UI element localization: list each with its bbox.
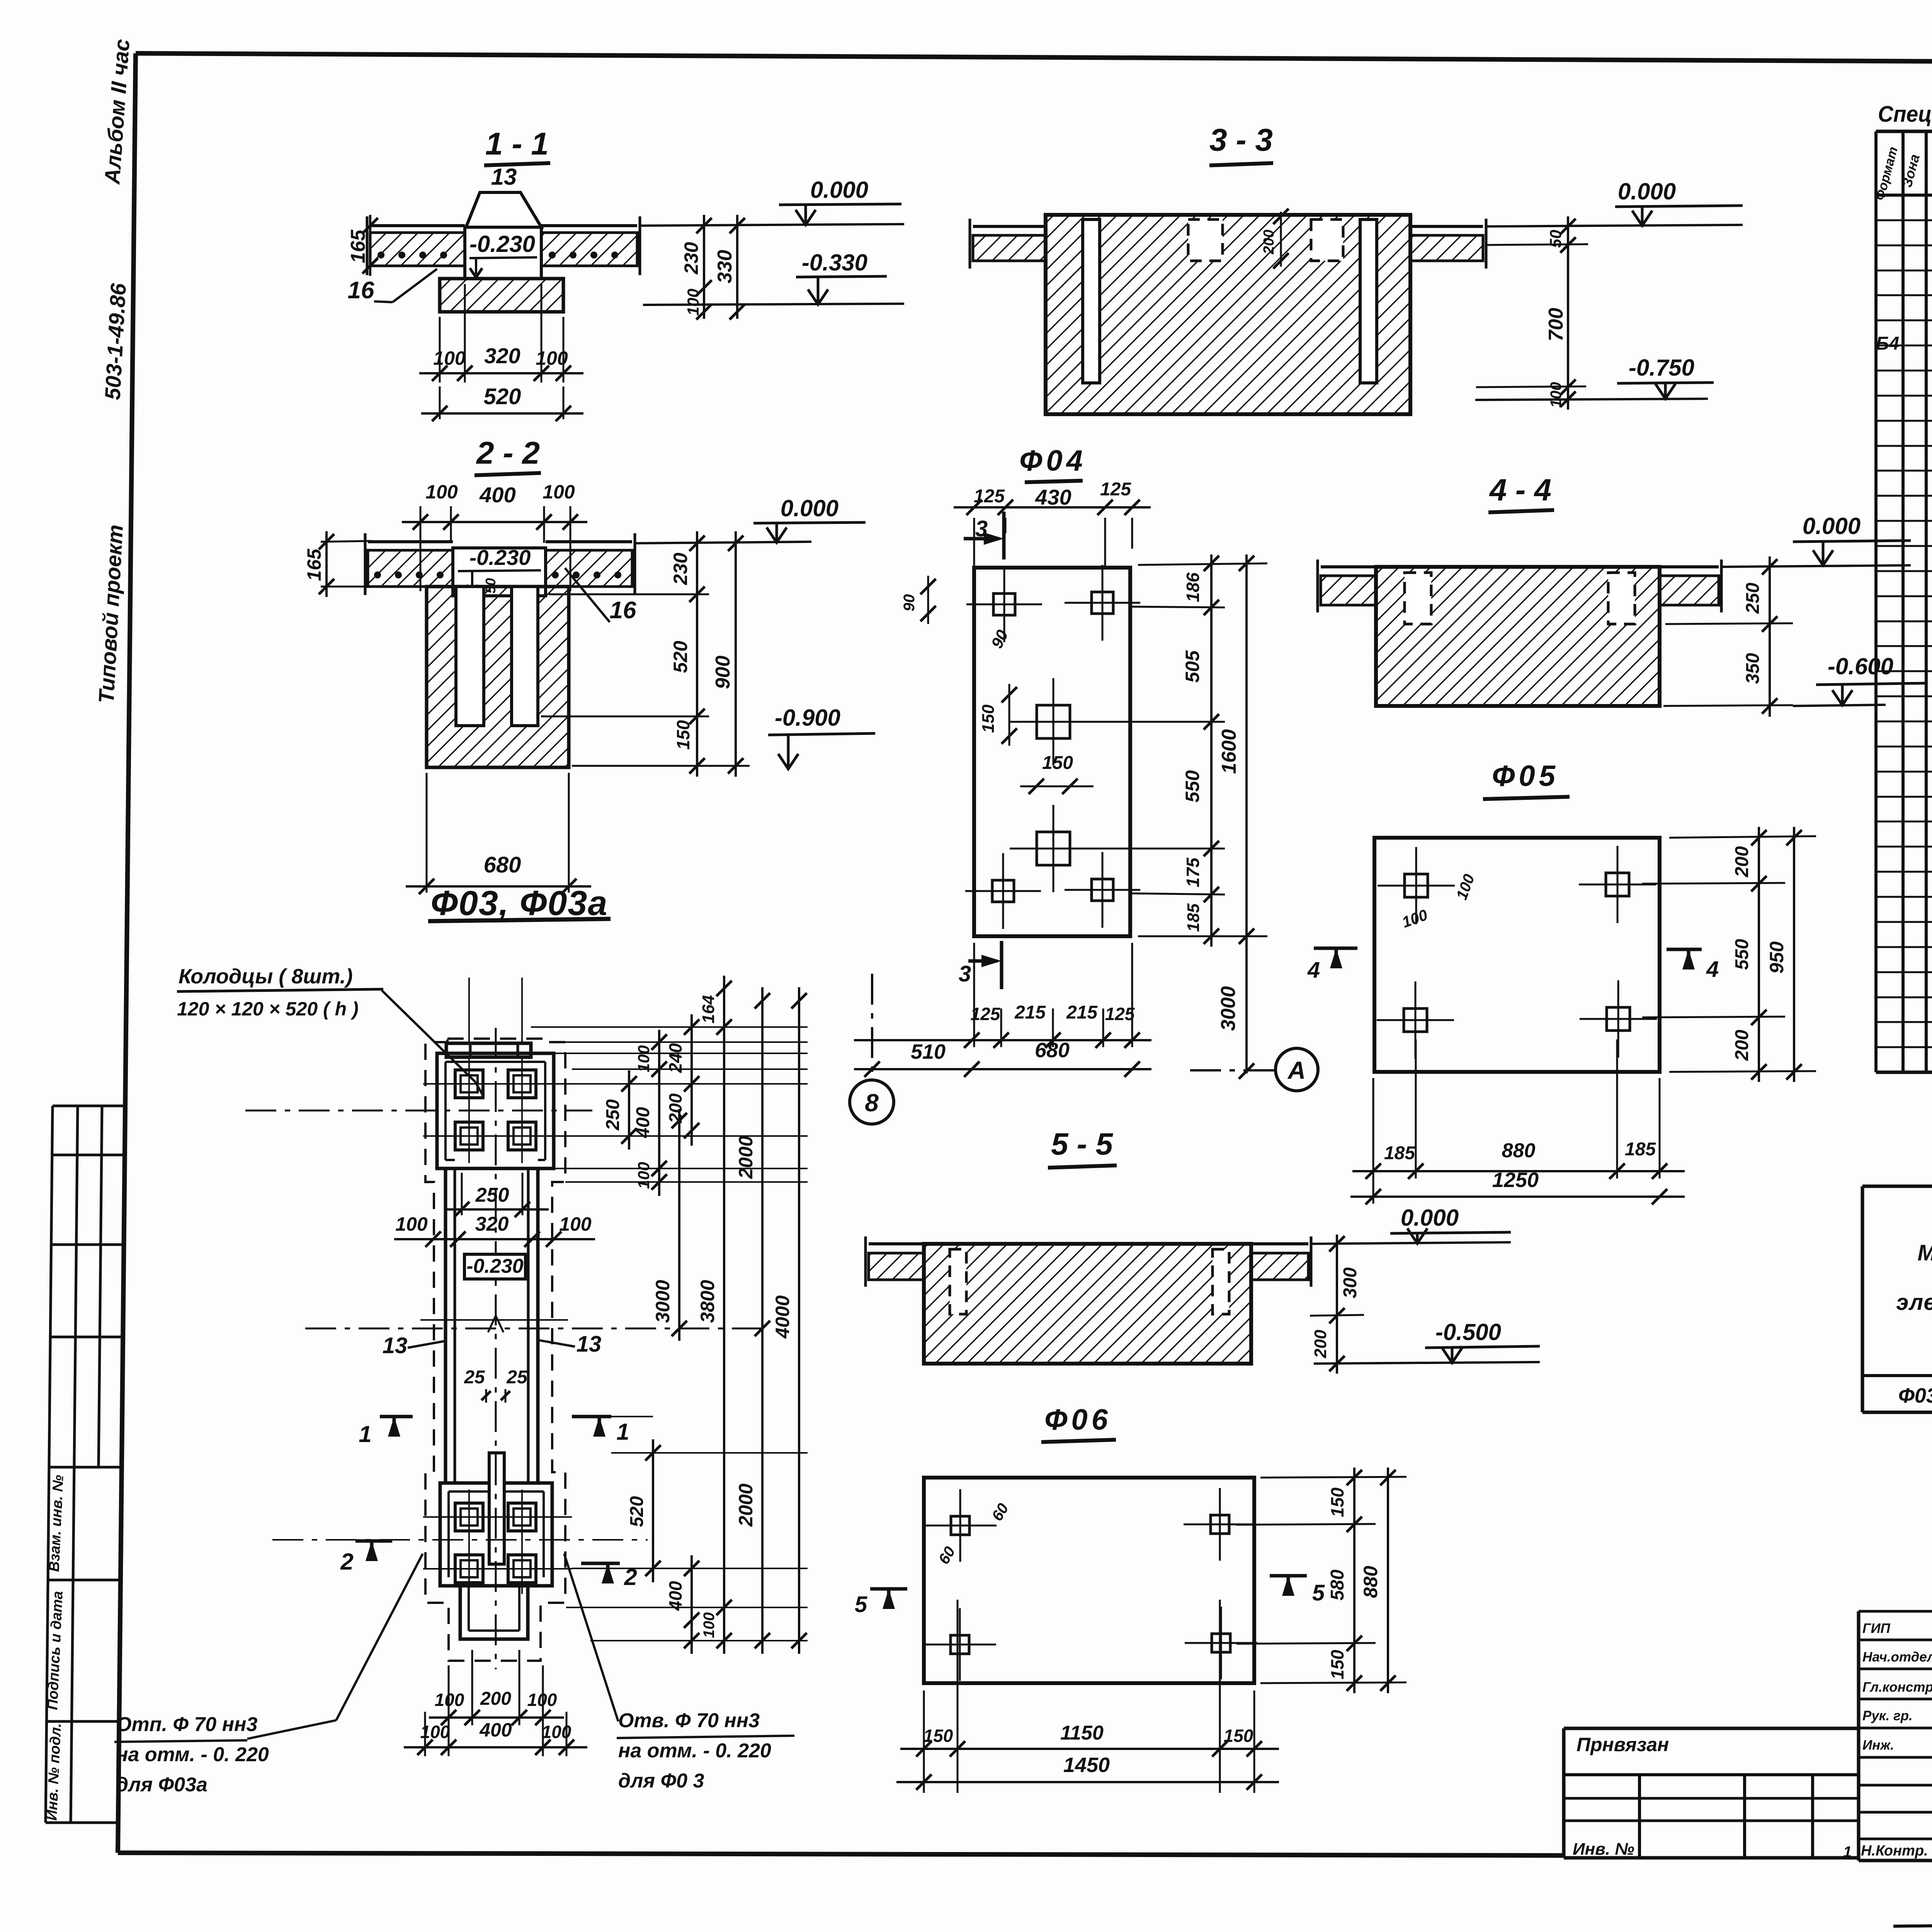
spec table bbox=[1872, 102, 1932, 1072]
svg-text:185: 185 bbox=[1384, 1143, 1415, 1163]
svg-text:400: 400 bbox=[665, 1581, 685, 1611]
section 4-4 title bbox=[1488, 473, 1554, 512]
plan F03 extension lines bbox=[531, 1027, 808, 1641]
svg-text:4 - 4: 4 - 4 bbox=[1489, 473, 1551, 507]
svg-text:150: 150 bbox=[979, 704, 998, 733]
svg-text:400: 400 bbox=[633, 1107, 653, 1138]
plan F03 top dims bbox=[394, 1173, 595, 1247]
svg-text:1600: 1600 bbox=[1218, 729, 1240, 774]
svg-text:8: 8 bbox=[865, 1089, 879, 1117]
svg-text:25: 25 bbox=[506, 1367, 528, 1388]
section 3-3 elevation -0.750 bbox=[1475, 355, 1714, 400]
svg-text:520: 520 bbox=[484, 384, 521, 409]
plan F04 top dims bbox=[954, 479, 1151, 568]
svg-text:для Ф03а: для Ф03а bbox=[116, 1774, 207, 1796]
svg-text:100: 100 bbox=[559, 1213, 592, 1235]
plan F05 section marks 4 bbox=[1307, 948, 1719, 983]
title block bbox=[1843, 1605, 1932, 1866]
plan F06 right dims bbox=[1236, 1468, 1406, 1693]
left stamp column bbox=[44, 1106, 125, 1823]
plan F05 plate bbox=[1374, 838, 1660, 1072]
svg-text:-0.230: -0.230 bbox=[469, 545, 531, 570]
section 2-2 footing bbox=[427, 587, 569, 767]
svg-text:550: 550 bbox=[1182, 770, 1203, 803]
svg-text:100: 100 bbox=[701, 1612, 718, 1638]
section 5-5 block bbox=[924, 1244, 1251, 1364]
svg-text:А: А bbox=[1287, 1056, 1306, 1084]
svg-text:100: 100 bbox=[395, 1213, 428, 1235]
svg-text:Ф03, Ф03а: Ф03, Ф03а bbox=[431, 884, 608, 923]
plan F03 mark minus0230 bbox=[464, 1254, 526, 1279]
svg-text:164: 164 bbox=[699, 995, 718, 1023]
svg-text:125: 125 bbox=[1100, 479, 1131, 500]
svg-text:150: 150 bbox=[923, 1726, 953, 1746]
svg-text:Ф03, Ф03а: Ф03, Ф03а bbox=[1898, 1384, 1932, 1407]
svg-text:Ф06: Ф06 bbox=[1044, 1403, 1112, 1436]
svg-text:5 - 5: 5 - 5 bbox=[1051, 1127, 1114, 1161]
plan F06 anchors bbox=[923, 1488, 1257, 1681]
section 2-2 title bbox=[474, 435, 541, 475]
plan F03 chain 100-400-100 bbox=[633, 1030, 667, 1196]
svg-text:430: 430 bbox=[1035, 485, 1071, 509]
svg-text:Марка: Марка bbox=[1917, 1240, 1932, 1265]
svg-text:13: 13 bbox=[577, 1332, 602, 1357]
plan F04 section mark 3 bottom bbox=[959, 941, 1002, 989]
plan F03 section marks 1 bbox=[359, 1417, 653, 1447]
section 5-5 elevation 0.000 bbox=[1311, 1205, 1511, 1244]
svg-text:0.000: 0.000 bbox=[1401, 1205, 1459, 1231]
svg-text:100: 100 bbox=[542, 1722, 571, 1742]
svg-text:-0.600: -0.600 bbox=[1828, 653, 1893, 679]
section 5-5 right dims bbox=[1310, 1235, 1364, 1374]
plan F03 chain 240-200 bbox=[665, 1014, 699, 1146]
svg-text:Инв. №: Инв. № bbox=[1573, 1840, 1634, 1859]
plan F03 top head bbox=[437, 1043, 554, 1168]
section 1-1 footing bbox=[440, 279, 563, 312]
section 3-3 right dims bbox=[1476, 216, 1588, 410]
svg-text:400: 400 bbox=[479, 483, 515, 507]
svg-text:4: 4 bbox=[1307, 957, 1320, 983]
plan F04 small dims bbox=[901, 576, 1094, 794]
svg-text:900: 900 bbox=[712, 656, 734, 689]
svg-text:1150: 1150 bbox=[1060, 1722, 1104, 1744]
svg-text:100: 100 bbox=[1548, 382, 1565, 408]
svg-text:-0.500: -0.500 bbox=[1435, 1319, 1501, 1345]
svg-text:13: 13 bbox=[491, 164, 517, 190]
svg-text:100: 100 bbox=[684, 289, 702, 316]
plan F06 title bbox=[1041, 1403, 1116, 1442]
plan F06 bottom dims bbox=[896, 1600, 1279, 1793]
section 2-2 right dims bbox=[541, 531, 750, 777]
svg-text:Ф05: Ф05 bbox=[1492, 760, 1559, 793]
plan F03 chain 250 bbox=[603, 1070, 637, 1150]
svg-text:0.000: 0.000 bbox=[1803, 513, 1861, 539]
svg-text:150: 150 bbox=[1042, 753, 1073, 773]
svg-text:-0.230: -0.230 bbox=[466, 1255, 524, 1277]
svg-text:320: 320 bbox=[475, 1213, 509, 1235]
svg-text:100: 100 bbox=[435, 1690, 464, 1710]
svg-text:520: 520 bbox=[670, 641, 691, 673]
svg-text:150: 150 bbox=[673, 720, 693, 750]
plan F04 right dims bbox=[1086, 554, 1267, 1079]
plan F03 wells bbox=[455, 1070, 536, 1583]
svg-text:на отм. - 0. 220: на отм. - 0. 220 bbox=[116, 1743, 269, 1766]
svg-text:200: 200 bbox=[1732, 846, 1752, 878]
svg-text:Прнвязан: Прнвязан bbox=[1577, 1734, 1669, 1755]
svg-text:200: 200 bbox=[1261, 230, 1277, 254]
svg-text:0.000: 0.000 bbox=[1618, 179, 1676, 204]
svg-text:250: 250 bbox=[475, 1184, 509, 1206]
section 2-2 top dims bbox=[402, 481, 587, 591]
plan F03 callout left bbox=[114, 1554, 423, 1796]
svg-text:100: 100 bbox=[527, 1690, 557, 1710]
section 4-4 floor slab bbox=[1318, 560, 1721, 612]
svg-text:0.000: 0.000 bbox=[781, 495, 838, 521]
svg-text:1: 1 bbox=[359, 1421, 371, 1447]
section 1-1 pedestal bbox=[465, 192, 541, 279]
bottom right corner mark bbox=[1893, 1895, 1932, 1926]
section 2-2 elevation -0.900 bbox=[768, 705, 875, 769]
svg-text:100: 100 bbox=[420, 1722, 450, 1742]
svg-text:Гл.констр.: Гл.констр. bbox=[1862, 1680, 1932, 1695]
svg-text:400: 400 bbox=[479, 1719, 512, 1741]
section 4-4 elevation 0.000 bbox=[1721, 513, 1911, 567]
svg-text:4: 4 bbox=[1706, 957, 1719, 982]
plan F05 title bbox=[1483, 760, 1570, 799]
svg-text:1: 1 bbox=[616, 1419, 629, 1445]
plan F03 leaders 13 bbox=[383, 1332, 602, 1358]
svg-text:3800: 3800 bbox=[697, 1280, 718, 1323]
svg-text:185: 185 bbox=[1184, 903, 1203, 932]
svg-text:1250: 1250 bbox=[1492, 1168, 1539, 1192]
svg-text:5: 5 bbox=[1312, 1580, 1325, 1605]
svg-text:Отп. Ф 70 нн3: Отп. Ф 70 нн3 bbox=[116, 1713, 257, 1736]
plan F03 dims 25 25 bbox=[464, 1367, 528, 1403]
svg-text:50: 50 bbox=[1546, 230, 1565, 248]
svg-text:5: 5 bbox=[855, 1592, 867, 1617]
plan F03 chain 4000 bbox=[772, 987, 807, 1654]
svg-text:200: 200 bbox=[1311, 1330, 1330, 1359]
plan F04 bottom dims bbox=[854, 943, 1151, 1077]
plan F05 right dims bbox=[1642, 827, 1816, 1082]
svg-text:ГИП: ГИП bbox=[1862, 1621, 1891, 1636]
plan F06 section marks 5 bbox=[855, 1576, 1325, 1617]
section 3-3 elevation 0.000 bbox=[1486, 179, 1743, 226]
svg-text:100: 100 bbox=[433, 347, 466, 369]
svg-text:510: 510 bbox=[911, 1040, 946, 1063]
section 5-5 title bbox=[1048, 1127, 1117, 1168]
svg-text:4000: 4000 bbox=[772, 1295, 793, 1338]
svg-text:25: 25 bbox=[464, 1367, 485, 1388]
axis 8 bbox=[850, 974, 894, 1124]
svg-text:2000: 2000 bbox=[735, 1483, 757, 1527]
section 1-1 floor slab bbox=[367, 216, 640, 275]
svg-text:125: 125 bbox=[971, 1004, 1001, 1024]
plan F03 chain 400 bbox=[665, 1555, 699, 1654]
section 2-2 bottom dim 680 bbox=[406, 773, 591, 894]
plan F03 chain 2000-2000 bbox=[735, 987, 770, 1654]
plan F04 anchors bbox=[965, 565, 1140, 929]
svg-text:950: 950 bbox=[1766, 941, 1787, 974]
svg-text:300: 300 bbox=[1340, 1267, 1361, 1298]
svg-text:Спецнфикация на фундаменты п: Спецнфикация на фундаменты под оборудооа… bbox=[1878, 102, 1932, 127]
svg-text:13: 13 bbox=[383, 1333, 408, 1358]
margin text typovoy proekt bbox=[94, 524, 131, 704]
svg-text:Нач.отдел: Нач.отдел bbox=[1862, 1650, 1932, 1665]
section 1-1 bottom dims bbox=[419, 284, 583, 421]
plan F03 chain 3000 bbox=[652, 1109, 687, 1341]
svg-text:16: 16 bbox=[610, 597, 636, 624]
svg-text:100: 100 bbox=[425, 481, 458, 503]
plan F05 small dims bbox=[1400, 872, 1478, 931]
svg-text:100: 100 bbox=[634, 1045, 653, 1072]
svg-text:550: 550 bbox=[1732, 939, 1752, 970]
svg-text:на отм. - 0. 220: на отм. - 0. 220 bbox=[618, 1740, 771, 1762]
svg-text:2 - 2: 2 - 2 bbox=[476, 435, 540, 471]
svg-text:150: 150 bbox=[1224, 1726, 1253, 1746]
svg-text:165: 165 bbox=[303, 548, 325, 581]
section 4-4 block bbox=[1376, 567, 1660, 706]
svg-text:100: 100 bbox=[634, 1162, 653, 1189]
svg-text:230: 230 bbox=[680, 242, 702, 275]
axis A bbox=[1190, 1048, 1318, 1091]
svg-text:520: 520 bbox=[627, 1496, 647, 1527]
svg-text:186: 186 bbox=[1183, 572, 1203, 602]
plan F06 plate bbox=[924, 1478, 1254, 1683]
section 2-2 pedestal bbox=[453, 545, 546, 596]
section 2-2 leader 16 bbox=[565, 568, 636, 624]
svg-text:185: 185 bbox=[1625, 1139, 1656, 1160]
svg-text:120 × 120 × 520 ( h ): 120 × 120 × 520 ( h ) bbox=[177, 998, 359, 1020]
svg-text:100: 100 bbox=[543, 481, 575, 503]
svg-text:215: 215 bbox=[1066, 1002, 1098, 1023]
section 5-5 floor slab bbox=[866, 1236, 1311, 1287]
svg-text:680: 680 bbox=[484, 852, 521, 878]
plan F06 small dims bbox=[935, 1500, 1012, 1567]
svg-text:-0.900: -0.900 bbox=[775, 705, 840, 731]
plan F04 title bbox=[1019, 444, 1087, 482]
margin text album bbox=[100, 38, 134, 185]
plan F03 title bbox=[428, 884, 611, 923]
plan F03 bottom dims bbox=[404, 1650, 587, 1756]
steel consumption table bbox=[1862, 1150, 1932, 1412]
section 4-4 elevation -0.600 bbox=[1793, 653, 1926, 706]
svg-text:320: 320 bbox=[484, 344, 520, 368]
svg-text:175: 175 bbox=[1183, 857, 1203, 887]
section 5-5 elevation -0.500 bbox=[1314, 1319, 1540, 1364]
svg-text:250: 250 bbox=[1743, 583, 1763, 614]
svg-text:90: 90 bbox=[901, 594, 918, 612]
svg-text:1450: 1450 bbox=[1063, 1753, 1110, 1777]
plan F03 chain 164-3800 bbox=[697, 976, 732, 1654]
svg-text:230: 230 bbox=[670, 553, 691, 585]
svg-text:для Ф0 3: для Ф0 3 bbox=[618, 1770, 704, 1792]
section 2-2 floor slab bbox=[365, 533, 635, 595]
svg-text:215: 215 bbox=[1014, 1002, 1046, 1023]
svg-text:3: 3 bbox=[959, 961, 971, 986]
svg-text:1 - 1: 1 - 1 bbox=[485, 126, 549, 162]
svg-text:2: 2 bbox=[340, 1549, 353, 1575]
svg-text:580: 580 bbox=[1327, 1570, 1348, 1600]
svg-text:150: 150 bbox=[1327, 1487, 1347, 1517]
svg-text:3000: 3000 bbox=[652, 1280, 673, 1323]
section 4-4 right dims bbox=[1663, 556, 1793, 717]
plan F05 anchors bbox=[1377, 846, 1657, 1059]
plan F03 centerline bbox=[495, 1028, 497, 1669]
section 1-1 elevation 0.000 bbox=[640, 177, 904, 226]
svg-text:3000: 3000 bbox=[1217, 986, 1240, 1031]
plan F03 bottom head bbox=[440, 1453, 552, 1639]
plan F03 section marks 2 bbox=[340, 1541, 637, 1590]
section 3-3 title bbox=[1209, 122, 1273, 165]
section 1-1 title bbox=[484, 126, 550, 190]
svg-text:150: 150 bbox=[1327, 1650, 1347, 1679]
section 1-1 elevation -0.330 bbox=[643, 250, 904, 305]
svg-text:Отв. Ф 70 нн3: Отв. Ф 70 нн3 bbox=[618, 1709, 760, 1732]
svg-text:2000: 2000 bbox=[735, 1136, 757, 1179]
svg-text:880: 880 bbox=[1502, 1139, 1536, 1162]
section 1-1 right dims bbox=[680, 215, 745, 320]
svg-text:680: 680 bbox=[1035, 1039, 1070, 1062]
section 2-2 elevation 0.000 bbox=[635, 495, 866, 543]
svg-text:505: 505 bbox=[1182, 650, 1203, 683]
section 1-1 leader 16 bbox=[348, 269, 437, 304]
svg-text:Ф04: Ф04 bbox=[1019, 444, 1087, 477]
svg-text:350: 350 bbox=[1743, 653, 1763, 684]
svg-text:100: 100 bbox=[536, 347, 568, 369]
svg-text:880: 880 bbox=[1360, 1566, 1381, 1598]
svg-text:Н.Контр.: Н.Контр. bbox=[1861, 1843, 1928, 1859]
privyazan table bbox=[1564, 1728, 1859, 1859]
svg-text:-0.750: -0.750 bbox=[1629, 355, 1694, 381]
svg-text:16: 16 bbox=[348, 277, 374, 304]
svg-text:165: 165 bbox=[347, 230, 369, 264]
svg-text:240: 240 bbox=[665, 1043, 685, 1073]
margin text project code bbox=[100, 282, 131, 401]
svg-text:250: 250 bbox=[603, 1099, 623, 1131]
plan F05 bottom dims bbox=[1350, 1039, 1685, 1204]
svg-text:-0.230: -0.230 bbox=[469, 231, 535, 257]
svg-text:700: 700 bbox=[1545, 308, 1567, 342]
section 3-3 block bbox=[1046, 209, 1410, 414]
plan F03 well crosshairs bbox=[423, 978, 572, 1594]
plan F03 chain 520 bbox=[627, 1439, 661, 1582]
plan F03 pit outline dashed bbox=[425, 1039, 565, 1661]
svg-text:125: 125 bbox=[1105, 1004, 1135, 1024]
svg-text:-0.330: -0.330 bbox=[802, 250, 867, 276]
svg-text:Инж.: Инж. bbox=[1862, 1738, 1894, 1753]
svg-text:Рук. гр.: Рук. гр. bbox=[1862, 1708, 1913, 1723]
svg-text:200: 200 bbox=[1732, 1030, 1752, 1061]
plan F04 plate bbox=[974, 568, 1130, 936]
svg-text:Колодцы ( 8шт.): Колодцы ( 8шт.) bbox=[179, 965, 353, 988]
svg-text:330: 330 bbox=[714, 250, 736, 284]
section 2-2 dim 165 bbox=[303, 531, 372, 597]
plan F04 section mark 3 top bbox=[964, 512, 1004, 560]
plan F03 channel walls bbox=[446, 1168, 538, 1483]
plan F03 callout right bbox=[564, 1554, 794, 1792]
svg-text:Б4: Б4 bbox=[1876, 333, 1900, 354]
svg-text:3 - 3: 3 - 3 bbox=[1209, 122, 1273, 158]
plan F03 callout kolodtsy bbox=[177, 965, 483, 1095]
plan F03 axis line horizontal bbox=[245, 1111, 768, 1540]
svg-text:элемента: элемента bbox=[1896, 1290, 1932, 1315]
svg-text:200: 200 bbox=[480, 1689, 511, 1709]
section 3-3 floor slab bbox=[970, 219, 1486, 269]
section 1-1 dim 165 bbox=[347, 215, 378, 276]
svg-text:0.000: 0.000 bbox=[810, 177, 868, 203]
